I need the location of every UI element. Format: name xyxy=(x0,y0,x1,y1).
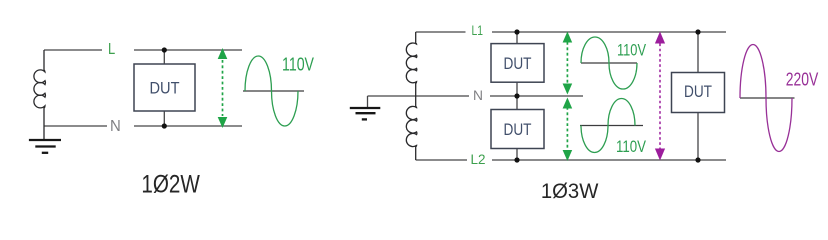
svg-text:110V: 110V xyxy=(617,41,646,60)
svg-text:L: L xyxy=(108,41,115,58)
svg-text:N: N xyxy=(473,87,483,103)
svg-text:1Ø3W: 1Ø3W xyxy=(541,179,599,203)
svg-text:DUT: DUT xyxy=(504,55,532,73)
svg-text:DUT: DUT xyxy=(150,80,180,98)
svg-text:L2: L2 xyxy=(471,151,486,167)
svg-text:220V: 220V xyxy=(786,70,819,90)
svg-text:N: N xyxy=(110,118,121,135)
svg-text:DUT: DUT xyxy=(504,121,532,139)
svg-text:110V: 110V xyxy=(282,55,314,75)
svg-text:1Ø2W: 1Ø2W xyxy=(141,171,200,199)
svg-text:L1: L1 xyxy=(472,22,484,38)
svg-text:110V: 110V xyxy=(616,137,647,156)
svg-text:DUT: DUT xyxy=(684,83,712,101)
